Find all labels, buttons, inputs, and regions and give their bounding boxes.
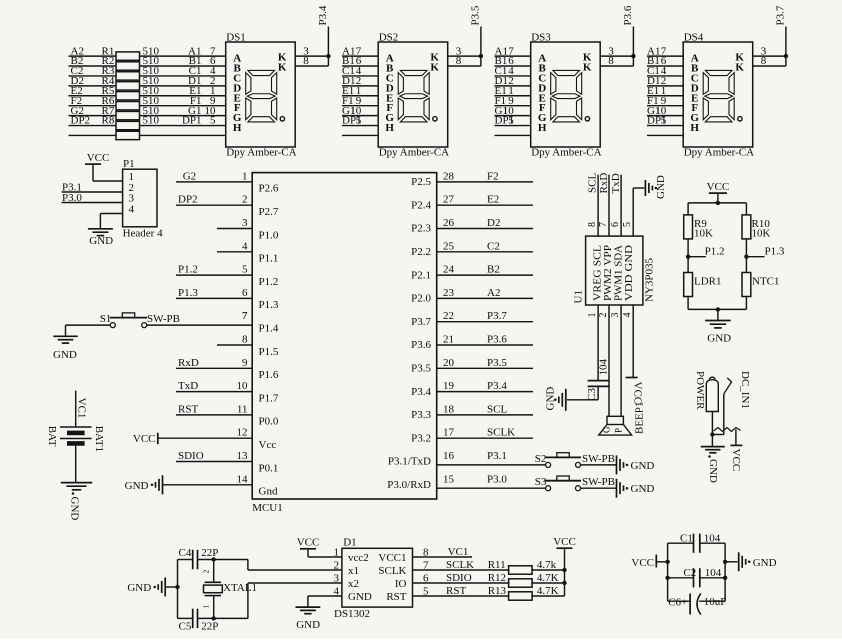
svg-text:11: 11 [237,403,248,415]
svg-text:SDIO: SDIO [446,572,472,584]
power symbol VCC above R9 R10 [707,181,730,203]
ground symbol at switch S3 [581,479,655,498]
connector P1 Header 4 [123,158,164,240]
svg-text:1: 1 [242,170,248,182]
svg-text:E2: E2 [487,194,499,206]
resistor R4 510 with row wires net D2 to D1 [69,75,226,90]
svg-text:23: 23 [443,287,455,299]
svg-text:8: 8 [456,55,462,67]
capacitor C3 104 on U1 pin 1 [586,305,610,401]
node P1.3 between R10 and NTC1 [744,239,785,273]
svg-text:22P: 22P [201,621,218,633]
resistor R13 4.7K pull-up on net RST [413,585,565,600]
svg-text:x2: x2 [348,578,359,590]
svg-text:P1.6: P1.6 [259,369,279,381]
wire U1 pin 6 net TxD [610,173,622,236]
svg-text:10uF: 10uF [704,596,727,608]
svg-text:P3.6: P3.6 [487,334,507,346]
wire crystal top node to DS1302 X1 [212,557,342,570]
wire U1 pin 1 to ground [567,399,598,401]
junction node P3.6 [631,54,635,58]
node P1.2 between R9 and LDR1 [686,239,725,273]
svg-text:GND: GND [127,582,151,594]
7-segment display DS3 [531,32,602,159]
svg-text:104: 104 [598,359,610,376]
svg-text:DS1: DS1 [226,32,246,44]
svg-text:22P: 22P [201,547,218,559]
DS2 segment input stub wires with net labels A1-DP1 [342,45,378,135]
svg-text:P2.7: P2.7 [259,206,279,218]
wire MCU pin 25 net C2 [437,240,533,252]
ground symbol at switch S2 [581,455,655,474]
svg-text:G: G [602,426,612,433]
svg-text:SW-PB: SW-PB [582,476,615,488]
svg-text:VCC: VCC [87,152,110,164]
svg-text:15: 15 [443,473,455,485]
svg-text:5: 5 [242,264,248,276]
RTC chip D1 DS1302 [334,537,430,621]
svg-text:P3.7: P3.7 [487,310,507,322]
svg-text:VCC: VCC [707,181,730,193]
svg-text:GND: GND [296,619,320,631]
resistor R10 10K [742,215,771,240]
svg-text:DP2: DP2 [71,115,91,127]
svg-text:17: 17 [443,427,455,439]
svg-text:B2: B2 [487,264,500,276]
svg-text:GND: GND [53,349,77,361]
wires U1 pins 2,3 to buzzer BEEP1 [609,305,621,416]
svg-text:GND: GND [125,480,149,492]
resistor R5 510 with row wires net E2 to E1 [69,85,226,100]
resistor R2 510 with row wires net B2 to B1 [69,55,226,70]
svg-text:VCC1: VCC1 [378,552,406,564]
svg-text:LDR1: LDR1 [694,276,722,288]
svg-text:4.7k: 4.7k [537,559,557,571]
svg-text:P3.1: P3.1 [487,450,507,462]
ground symbol at crystal block [127,578,177,597]
wire MCU pin 20 net P3.5 [437,357,533,369]
power symbol VCC at pull-up rail [553,536,576,596]
wire MCU pin 26 net D2 [437,217,533,229]
svg-text:2: 2 [242,194,248,206]
svg-text:DP2: DP2 [178,194,198,206]
svg-text:S3: S3 [535,476,547,488]
svg-text:10K: 10K [694,228,713,240]
svg-text:C2: C2 [683,567,696,579]
svg-text:TxD: TxD [178,380,198,392]
svg-text:2: 2 [334,560,340,572]
resistor R12 4.7K pull-up on net SDIO [413,572,565,587]
DS1 common-cathode pins 3,8 wires to net P3.4 [295,27,328,68]
svg-text:Dpy Amber-CA: Dpy Amber-CA [379,147,449,159]
svg-text:P0.1: P0.1 [259,462,279,474]
svg-text:DS2: DS2 [379,32,399,44]
svg-text:12: 12 [237,427,248,439]
svg-text:RST: RST [446,585,466,597]
svg-text:6: 6 [242,287,248,299]
svg-text:GND: GND [707,459,719,483]
svg-text:P3.0: P3.0 [62,192,82,204]
svg-text:2: 2 [202,570,211,574]
svg-text:BAT1: BAT1 [93,426,105,452]
svg-text:P3.2: P3.2 [411,432,431,444]
svg-text:P1.2: P1.2 [259,276,279,288]
wire MCU pin 11 net RST [176,403,252,415]
svg-text:16: 16 [443,450,455,462]
resistor R1 510 with row wires net A2 to A1 [69,45,226,60]
wire MCU pin 3 stub [217,228,252,230]
svg-text:13: 13 [237,450,249,462]
svg-text:GND: GND [631,460,655,472]
svg-text:R8: R8 [102,115,115,127]
svg-text:3: 3 [242,217,248,229]
svg-text:IO: IO [395,578,407,590]
svg-text:K: K [735,62,744,74]
svg-text:C1: C1 [680,533,693,545]
svg-text:5: 5 [622,222,633,227]
svg-text:2: 2 [598,313,609,318]
wire MCU pin 21 net P3.6 [437,334,533,346]
DS4 common-cathode pins 3,8 wires to net P3.7 [753,27,786,68]
svg-text:6: 6 [610,222,621,227]
wire MCU pin 13 net SDIO [176,450,252,462]
wire DS1302 pin 8 net VC1 [413,546,473,558]
svg-text:GND: GND [753,557,777,569]
svg-text:20: 20 [443,357,455,369]
svg-text:10: 10 [237,380,249,392]
svg-text:5: 5 [661,115,667,127]
svg-text:9: 9 [242,357,248,369]
svg-text:P2.5: P2.5 [411,176,431,188]
wire U1 pin 7 net RxD [598,173,610,236]
switch S3 SW-PB [535,476,615,491]
svg-text:8: 8 [242,334,248,346]
svg-text:Vcc: Vcc [259,439,277,451]
svg-text:5: 5 [508,115,514,127]
svg-text:S2: S2 [535,453,547,465]
wire MCU pin 19 net P3.4 [437,380,533,392]
resistor R9 10K [684,215,713,240]
wire MCU pin 15 net P3.0 to switch S3 [437,473,546,488]
svg-text:P1.7: P1.7 [259,392,279,404]
wire MCU pin 8 stub [217,344,252,346]
wire MCU pin 28 net F2 [437,170,533,182]
svg-text:VDD GND: VDD GND [623,245,635,301]
svg-text:P2.3: P2.3 [411,223,431,235]
svg-text:P2.6: P2.6 [259,183,279,195]
svg-text:C2: C2 [487,240,500,252]
svg-text:S1: S1 [100,313,112,325]
svg-text:P1.2: P1.2 [705,246,725,258]
power symbol VCC at P1 pin 1 [85,152,123,181]
svg-text:SCL: SCL [487,403,507,415]
svg-text:7: 7 [242,310,248,322]
resistor R7 510 with row wires net G2 to G1 [69,105,226,120]
svg-text:28: 28 [443,170,455,182]
ground symbol at decoupling block [725,552,776,571]
svg-text:P3.4: P3.4 [411,386,431,398]
svg-text:14: 14 [237,473,249,485]
svg-text:P3.4: P3.4 [487,380,507,392]
svg-text:5: 5 [356,115,362,127]
svg-text:SCLK: SCLK [487,427,515,439]
wire net P3.0 to P1 pin 3 [62,192,123,204]
svg-text:22: 22 [443,310,454,322]
svg-text:P1.1: P1.1 [259,253,279,265]
svg-text:R13: R13 [488,585,507,597]
svg-text:SDIO: SDIO [178,450,204,462]
svg-text:XTAL1: XTAL1 [223,582,257,594]
svg-text:P3.5: P3.5 [411,363,431,375]
svg-text:P1.4: P1.4 [259,323,279,335]
battery BAT1 net VC1 [46,391,105,483]
wire MCU pin 23 net A2 [437,287,533,299]
svg-text:10K: 10K [752,228,771,240]
wire MCU pin 9 net RxD [176,357,252,369]
thermistor NTC1 [742,273,780,297]
svg-text:P3.7: P3.7 [411,316,431,328]
power symbol VCC at U1 pin 4 [626,305,644,404]
wire decoupling block rails [665,543,727,601]
svg-text:DS3: DS3 [531,32,551,44]
svg-text:Dpy Amber-CA: Dpy Amber-CA [684,147,754,159]
microcontroller MCU1 [237,170,455,514]
wire DC_IN1 pin to ground node [710,412,714,447]
capacitor C2 104 [668,567,726,587]
svg-text:VCC: VCC [133,433,156,445]
svg-text:GND: GND [69,497,81,521]
svg-text:GND: GND [655,175,667,199]
svg-text:4: 4 [622,313,633,318]
ground symbol at P1 pin 4 [88,214,123,248]
ground symbol at capacitor C3 [545,387,566,411]
wire MCU pin 10 net TxD [176,380,252,392]
svg-text:P3.5: P3.5 [469,5,481,25]
svg-text:SW-PB: SW-PB [147,313,180,325]
wire MCU pin 24 net B2 [437,264,533,276]
photoresistor LDR1 [684,273,722,297]
svg-text:21: 21 [443,334,454,346]
svg-text:P3.7: P3.7 [774,5,786,25]
svg-text:x1: x1 [348,565,359,577]
svg-text:510: 510 [143,115,160,127]
svg-text:K: K [430,62,439,74]
wire MCU pin 16 net P3.1 to switch S2 [437,450,546,465]
svg-text:4: 4 [242,240,248,252]
svg-text:P2.2: P2.2 [411,246,431,258]
svg-text:P2.0: P2.0 [411,293,431,305]
wire U1 pin 5 to ground [633,188,644,236]
power symbol VCC at MCU pin 12 [133,433,252,446]
svg-text:27: 27 [443,194,455,206]
svg-text:H: H [385,122,394,134]
svg-text:P3.6: P3.6 [622,5,634,25]
junction node P3.5 [479,54,483,58]
svg-text:24: 24 [443,264,455,276]
svg-text:GND: GND [631,483,655,495]
wire MCU pin 17 net SCLK [437,427,533,439]
electrolytic capacitor C6 10uF [668,594,727,615]
resistor R6 510 with row wires net F2 to F1 [69,95,226,110]
svg-text:BAT: BAT [46,426,58,447]
svg-text:P1.3: P1.3 [178,287,198,299]
svg-text:U1: U1 [573,290,585,303]
svg-text:H: H [690,122,699,134]
svg-text:RST: RST [178,403,198,415]
power symbol VCC at decoupling block [631,555,667,569]
unlabeled bottom resistor body and row wire [69,131,226,139]
junction node P3.7 [784,54,788,58]
svg-text:P3.6: P3.6 [411,339,431,351]
svg-text:P3.5: P3.5 [487,357,507,369]
7-segment display DS4 [683,32,754,159]
switch S2 SW-PB [535,453,615,468]
wire net P3.1 to P1 pin 2 [62,182,123,194]
svg-text:1: 1 [587,313,598,318]
svg-text:P1.0: P1.0 [259,229,279,241]
svg-text:SCL: SCL [587,173,599,193]
buzzer BEEP1 speaker [599,402,646,436]
7-segment display DS2 [378,32,449,159]
svg-text:P1.2: P1.2 [178,264,198,276]
svg-text:P2.4: P2.4 [411,199,431,211]
svg-text:Header 4: Header 4 [123,228,164,240]
resistor R8 510 with row wires net DP2 to DP1 [69,115,226,130]
svg-text:8: 8 [608,55,614,67]
svg-text:P1.3: P1.3 [765,246,785,258]
svg-text:K: K [583,62,592,74]
svg-text:D2: D2 [487,217,500,229]
svg-text:3: 3 [610,313,621,318]
svg-text:Dpy Amber-CA: Dpy Amber-CA [531,147,601,159]
svg-text:104: 104 [705,567,722,579]
svg-text:4: 4 [129,204,135,216]
svg-text:RST: RST [386,591,406,603]
DS2 common-cathode pins 3,8 wires to net P3.5 [448,27,481,68]
7-segment display DS1 [226,32,297,159]
svg-text:C6+: C6+ [668,597,687,609]
svg-text:7: 7 [598,222,609,227]
svg-text:P3.0: P3.0 [487,473,507,485]
wire MCU pin 4 stub [217,251,252,253]
capacitor C1 104 [668,533,726,553]
ground symbol below sensor divider [705,321,731,345]
ground symbol at MCU pin 14 [125,475,253,494]
ground symbol at battery BAT1 [61,483,93,521]
svg-text:TxD: TxD [610,173,622,193]
DC_IN1 spring contact zigzag [714,428,741,432]
svg-text:GND: GND [545,387,557,411]
svg-text:DS4: DS4 [684,32,704,44]
svg-text:GND: GND [707,333,731,345]
svg-text:GND: GND [348,591,372,603]
wire crystal block left rail [175,560,179,619]
svg-text:25: 25 [443,240,455,252]
svg-text:VC1: VC1 [448,546,469,558]
junction node P3.4 [326,54,330,58]
svg-text:8: 8 [587,222,598,227]
wire MCU pin 5 net P1.2 [176,264,252,276]
svg-text:P1.5: P1.5 [259,346,279,358]
svg-text:POWER: POWER [694,371,706,410]
DS3 segment input stub wires with net labels A1-DP1 [495,45,531,135]
wire MCU pin 18 net SCL [437,403,533,415]
svg-text:1: 1 [202,605,211,609]
ground symbol at DC_IN1 [701,447,725,483]
DS4 segment input stub wires with net labels A1-DP1 [647,45,683,135]
wire bottom rail of sensor divider [688,297,746,321]
power symbol VCC at DS1302 pin 1 [297,537,342,557]
wire MCU pin 1 net G2 [176,170,252,182]
svg-text:RxD: RxD [598,173,610,194]
svg-text:P1: P1 [123,158,135,170]
wire DC_IN1 switch contact [712,378,731,435]
svg-text:VC1: VC1 [76,398,88,419]
wire MCU pin 22 net P3.7 [437,310,533,322]
svg-text:SCLK: SCLK [446,559,474,571]
svg-text:3: 3 [334,573,340,585]
connector DC_IN1 POWER barrel jack [694,371,751,412]
svg-text:SW-PB: SW-PB [582,453,615,465]
svg-text:RxD: RxD [178,357,199,369]
svg-text:H: H [233,122,242,134]
svg-text:GND: GND [89,235,113,247]
ground symbol at DS1302 pin 4 [296,596,342,631]
svg-text:VCC: VCC [632,382,644,405]
svg-text:VCC: VCC [297,537,320,549]
wire crystal bottom node to DS1302 X2 [212,583,342,621]
svg-text:4.7K: 4.7K [537,572,559,584]
wire MCU pin 27 net E2 [437,194,533,206]
svg-text:P0.0: P0.0 [259,416,279,428]
svg-text:DC_IN1: DC_IN1 [739,371,751,409]
svg-text:19: 19 [443,380,455,392]
svg-text:D1: D1 [343,537,356,549]
svg-text:H: H [538,122,547,134]
svg-text:VCC: VCC [631,557,654,569]
svg-text:104: 104 [704,533,721,545]
crystal XTAL1 [202,560,258,619]
wire MCU pin 2 net DP2 [176,194,252,206]
svg-text:18: 18 [443,403,455,415]
svg-text:C5: C5 [179,621,192,633]
svg-text:Gnd: Gnd [259,486,278,498]
svg-text:8: 8 [761,55,767,67]
svg-text:VCC: VCC [730,449,742,472]
svg-text:P3.4: P3.4 [317,5,329,25]
svg-text:NTC1: NTC1 [752,276,780,288]
svg-text:P3.0/RxD: P3.0/RxD [387,479,431,491]
svg-text:SCLK: SCLK [378,565,406,577]
wire VCC rail to R9 and R10 [688,201,746,215]
svg-text:Dpy Amber-CA: Dpy Amber-CA [226,147,296,159]
svg-text:P2.1: P2.1 [411,269,431,281]
svg-text:NY3P035: NY3P035 [644,257,656,302]
svg-text:VCC: VCC [553,536,576,548]
svg-text:G2: G2 [183,170,196,182]
svg-text:P1.3: P1.3 [259,299,279,311]
wire MCU pin 6 net P1.3 [176,287,252,299]
svg-text:MCU1: MCU1 [252,502,283,514]
ground symbol at U1 pin 5 [645,175,667,199]
ground symbol at switch S1 [53,325,110,361]
svg-text:BEEP1: BEEP1 [634,402,646,434]
svg-text:P: P [614,428,624,433]
svg-text:4.7K: 4.7K [537,585,559,597]
svg-text:R11: R11 [488,559,506,571]
svg-text:P3.1/TxD: P3.1/TxD [388,456,431,468]
svg-text:5: 5 [210,115,216,127]
